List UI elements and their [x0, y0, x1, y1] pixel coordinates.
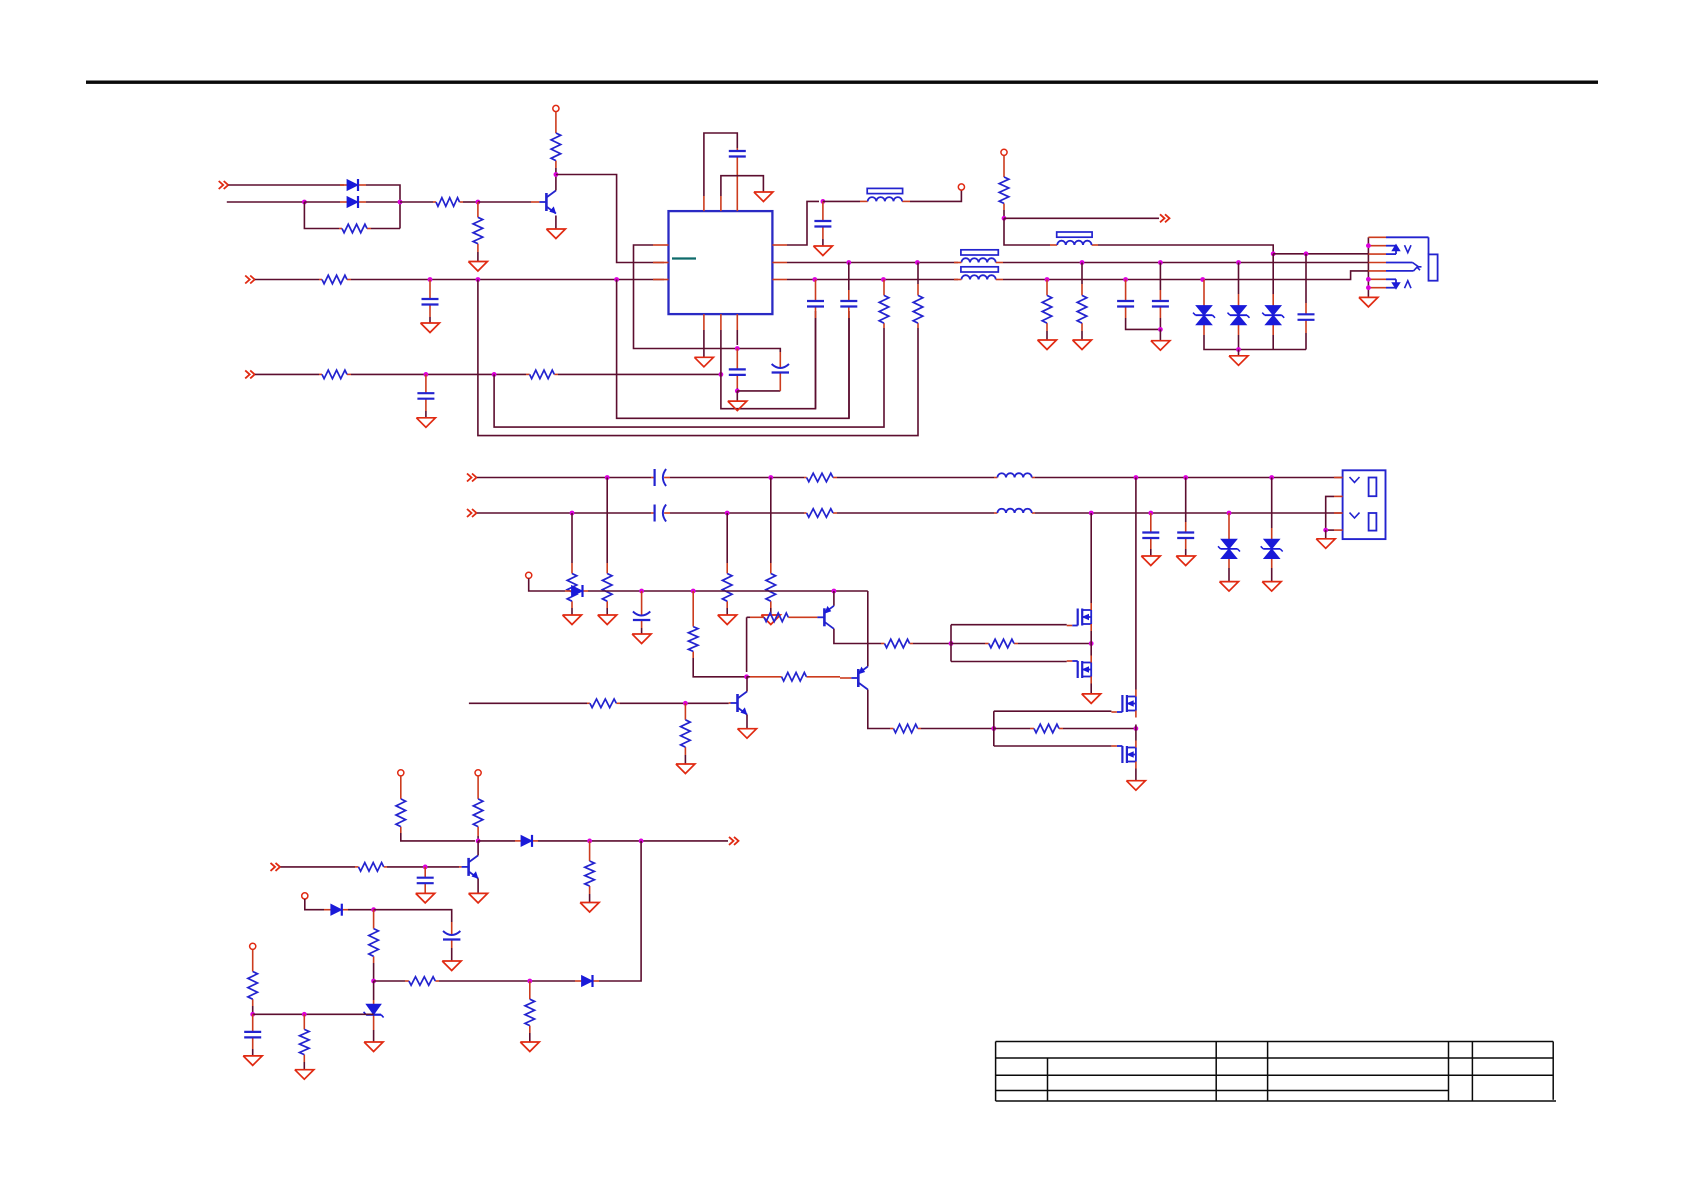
wire — [606, 608, 608, 615]
terminal — [526, 572, 532, 578]
wire — [951, 643, 985, 645]
MOSFET M1 — [1067, 603, 1092, 631]
junction — [832, 589, 837, 594]
wire — [387, 866, 459, 868]
wire — [555, 168, 557, 175]
ground — [580, 903, 599, 913]
wire — [837, 512, 994, 514]
wire — [787, 262, 958, 264]
inductor L2 — [994, 509, 1035, 513]
wire — [463, 201, 478, 203]
ground — [1229, 356, 1248, 366]
wire — [704, 133, 737, 196]
MOSFET M4 — [1111, 741, 1136, 769]
wire — [994, 728, 1030, 730]
junction — [428, 277, 433, 282]
wire — [366, 185, 400, 229]
off-page connector row3 — [245, 276, 255, 284]
wire — [1185, 478, 1187, 523]
junction — [1269, 475, 1274, 480]
resistor R21 — [881, 639, 913, 648]
wire — [373, 981, 375, 1000]
junction — [1080, 260, 1085, 265]
capacitor C9 — [1117, 280, 1134, 319]
junction — [398, 200, 403, 205]
terminal — [250, 943, 256, 949]
ground — [563, 615, 582, 625]
wire — [770, 608, 772, 615]
ground — [1126, 781, 1145, 791]
inductor L1 — [994, 473, 1035, 477]
resistor R22 — [985, 639, 1018, 648]
wire — [747, 616, 750, 618]
junction — [570, 511, 575, 516]
resistor R9 — [879, 280, 889, 329]
wire — [1325, 530, 1327, 539]
resistor R28 — [396, 776, 406, 833]
wire — [921, 728, 994, 730]
wire — [374, 980, 405, 982]
wire — [425, 411, 427, 418]
ground — [1359, 297, 1378, 307]
resistor R32 — [369, 910, 379, 963]
wire — [494, 328, 884, 427]
ferrite bead FB1 — [860, 188, 910, 201]
wire — [429, 317, 431, 323]
wire — [1135, 478, 1137, 690]
resistor R34 — [525, 981, 535, 1033]
junction — [1366, 285, 1371, 290]
ground — [520, 1042, 539, 1052]
junction — [639, 589, 644, 594]
top border rule — [86, 81, 1598, 84]
junction — [949, 641, 954, 646]
wire — [478, 840, 515, 842]
wire — [477, 512, 651, 514]
wire — [746, 715, 748, 729]
resistor R4 (pull-up) — [551, 112, 561, 168]
junction — [1158, 260, 1163, 265]
junction — [639, 839, 644, 844]
wire — [1159, 318, 1161, 329]
junction — [1123, 277, 1128, 282]
capacitor C10 — [1152, 290, 1169, 318]
junction — [1304, 251, 1309, 256]
wire — [571, 513, 573, 563]
junction — [725, 511, 730, 516]
wire — [617, 280, 849, 419]
capacitor C19 — [1177, 522, 1194, 549]
resistor R18 — [804, 509, 837, 518]
wire — [1003, 271, 1368, 280]
junction — [821, 199, 826, 204]
wire — [1018, 643, 1091, 645]
wire — [994, 710, 1112, 712]
ground — [1151, 341, 1170, 351]
wire — [833, 591, 835, 606]
wire — [588, 590, 868, 592]
ground — [1141, 556, 1160, 566]
resistor R26 — [587, 699, 620, 708]
wire — [478, 280, 918, 436]
wire — [1126, 318, 1161, 329]
junction — [476, 277, 481, 282]
diode D3 — [565, 585, 588, 597]
TVS diode TVS2 — [1228, 294, 1250, 335]
wire — [469, 702, 587, 704]
wire — [670, 477, 804, 479]
junction — [302, 1012, 307, 1017]
wire — [1081, 263, 1083, 285]
transistor Q2 (NPN) — [459, 855, 478, 878]
wire — [1090, 684, 1092, 694]
junction — [719, 372, 724, 377]
ground — [761, 615, 780, 625]
resistor R29 — [473, 776, 483, 836]
wire — [736, 388, 738, 391]
junction — [812, 277, 817, 282]
junction — [683, 701, 688, 706]
ground — [813, 246, 832, 256]
connector J2 (RCA jacks) — [1334, 470, 1386, 539]
zener diode ZD1 — [364, 1000, 384, 1030]
wire — [374, 910, 452, 922]
wire — [252, 1049, 254, 1056]
wire — [400, 201, 433, 203]
junction — [846, 260, 851, 265]
wire — [834, 629, 881, 644]
TVS diode TVS3 — [1262, 294, 1284, 335]
wire — [439, 980, 575, 982]
wire — [634, 245, 737, 349]
junction — [1002, 216, 1007, 221]
capacitor C12 (polarized) — [633, 591, 650, 628]
wire — [917, 263, 919, 285]
terminal — [958, 184, 964, 190]
junction — [735, 346, 740, 351]
capacitor C17 (coupling) — [651, 505, 670, 522]
resistor R15 — [804, 473, 837, 482]
wire — [451, 948, 453, 961]
wire — [746, 677, 748, 692]
wire — [837, 477, 994, 479]
wire — [1098, 245, 1273, 254]
resistor R24 — [890, 724, 921, 733]
resistor R17 — [722, 563, 732, 608]
ground — [728, 401, 747, 411]
ground — [243, 1056, 262, 1066]
wire — [1003, 210, 1005, 218]
ground — [1316, 539, 1335, 549]
capacitor C18 — [1142, 513, 1159, 549]
junction — [1366, 277, 1371, 282]
wire — [477, 477, 651, 479]
ground — [738, 729, 757, 739]
wire — [910, 190, 961, 201]
junction — [1148, 511, 1153, 516]
wire — [950, 625, 952, 662]
junction — [302, 200, 307, 205]
wire — [401, 833, 475, 841]
junction — [915, 260, 920, 265]
ground — [416, 893, 435, 903]
resistor R36 — [300, 1014, 310, 1062]
junction — [614, 277, 619, 282]
wire — [1090, 513, 1092, 603]
wire — [371, 228, 400, 230]
ground — [754, 192, 773, 202]
IC U1 — [653, 196, 787, 330]
wire — [303, 1062, 305, 1070]
resistor R11 — [1042, 280, 1052, 332]
junction — [492, 372, 497, 377]
wire — [848, 318, 850, 418]
terminal — [398, 770, 404, 776]
title block table — [996, 1042, 1556, 1102]
junction — [691, 589, 696, 594]
wire — [1004, 218, 1050, 245]
transistor Q4 (PNP) — [840, 667, 868, 690]
junction — [1158, 327, 1163, 332]
MOSFET M2 — [1067, 656, 1092, 684]
ground — [546, 216, 565, 239]
junction — [527, 979, 532, 984]
wire — [477, 878, 479, 893]
resistor R3 (base shunt) — [473, 202, 483, 252]
wire — [351, 373, 526, 375]
wire — [1228, 568, 1230, 582]
resistor R13 — [602, 563, 612, 608]
capacitor C3 — [417, 374, 434, 411]
resistor R33 — [405, 977, 439, 986]
capacitor C13 — [417, 867, 434, 894]
diode D1 — [340, 179, 366, 191]
wire — [1035, 477, 1343, 479]
wire — [1081, 331, 1083, 340]
wire — [1272, 335, 1274, 350]
wire — [736, 349, 780, 353]
wire — [477, 836, 479, 841]
junction — [250, 1012, 255, 1017]
wire — [348, 909, 374, 911]
capacitor C2 — [422, 280, 439, 318]
off-page connector row6 — [467, 509, 477, 517]
ground — [416, 418, 435, 428]
wire — [1305, 254, 1307, 303]
wire — [746, 617, 748, 672]
ground — [1176, 556, 1195, 566]
wire — [1271, 568, 1273, 582]
wire — [787, 201, 819, 245]
resistor R10 — [999, 155, 1009, 210]
resistor R1 (loop) — [339, 224, 371, 233]
junction — [371, 979, 376, 984]
capacitor C8 — [807, 280, 824, 319]
ground — [598, 615, 617, 625]
ground — [718, 615, 737, 625]
ground — [1038, 340, 1057, 350]
wire — [1090, 631, 1092, 656]
junction — [476, 200, 481, 205]
wire — [693, 658, 746, 677]
wire — [589, 894, 591, 903]
wire — [994, 745, 1112, 747]
TVS diode TVS5 — [1261, 528, 1283, 568]
wire — [1135, 725, 1137, 741]
wire — [787, 279, 958, 281]
ground — [1220, 582, 1239, 592]
wire — [1185, 549, 1187, 556]
ground — [676, 764, 695, 774]
junction — [1323, 528, 1328, 533]
off-page connector (right) — [1160, 214, 1170, 222]
wire — [1204, 335, 1306, 350]
wire — [304, 202, 339, 229]
wire — [684, 755, 686, 764]
ground — [694, 357, 713, 367]
wire — [255, 279, 319, 281]
capacitor C5 (polarized) — [772, 352, 789, 391]
ground — [1082, 694, 1101, 704]
wire — [641, 628, 643, 634]
junction — [1045, 277, 1050, 282]
junction — [605, 475, 610, 480]
wire — [1272, 254, 1274, 294]
transistor Q3 (PNP) — [810, 606, 834, 629]
junction — [1134, 475, 1139, 480]
wire — [1273, 253, 1368, 255]
wire — [848, 263, 850, 291]
wire — [305, 899, 324, 910]
ferrite bead FB2 — [1050, 232, 1098, 245]
junction — [768, 475, 773, 480]
wire — [252, 1006, 254, 1014]
wire — [737, 390, 780, 392]
wire — [1003, 262, 1368, 264]
wire — [1238, 335, 1240, 350]
wire — [529, 1033, 531, 1042]
ground — [1073, 340, 1092, 350]
TVS diode TVS4 — [1218, 513, 1240, 568]
junction — [735, 389, 740, 394]
junction — [424, 372, 429, 377]
diode D5 — [324, 904, 348, 916]
wire — [951, 624, 1067, 626]
wire — [1238, 263, 1240, 295]
wire — [477, 252, 479, 262]
wire — [868, 690, 890, 729]
wire — [1063, 728, 1136, 730]
wire — [529, 578, 565, 591]
wire — [721, 311, 816, 409]
wire — [1238, 350, 1240, 356]
resistor R12 — [1077, 284, 1087, 331]
ground — [469, 893, 488, 903]
wire — [255, 373, 319, 375]
resistor R19 — [688, 591, 698, 658]
wire — [736, 330, 738, 345]
resistor R6 — [319, 370, 351, 379]
wire — [227, 201, 305, 203]
wire — [1159, 329, 1161, 340]
diode D4 — [515, 835, 538, 847]
wire — [304, 201, 340, 203]
wire — [703, 330, 705, 357]
wire — [736, 391, 738, 401]
wire — [366, 201, 400, 203]
transistor Q5 (NPN) — [531, 191, 556, 214]
connector J1 (headphone jack) — [1386, 237, 1438, 289]
ground — [632, 634, 651, 644]
wire — [281, 866, 356, 868]
wire — [599, 841, 641, 981]
resistor R35 — [248, 949, 258, 1006]
ground — [421, 323, 440, 333]
wire — [823, 200, 860, 202]
wire — [478, 201, 531, 203]
terminal — [302, 893, 308, 899]
wire — [538, 840, 728, 842]
ground — [295, 1070, 314, 1080]
transistor Q1 (NPN) — [729, 692, 747, 715]
wire — [253, 1013, 374, 1015]
wire — [746, 676, 748, 678]
MOSFET M3 — [1111, 690, 1136, 718]
wire — [815, 318, 817, 409]
terminal — [475, 770, 481, 776]
wire — [1326, 529, 1334, 531]
capacitor C1 — [729, 148, 746, 196]
resistor R5 — [319, 275, 351, 284]
common-mode choke CH1 — [954, 250, 1003, 280]
junction — [423, 865, 428, 870]
off-page connector row1 — [219, 181, 229, 189]
wire — [556, 175, 664, 263]
wire — [1046, 331, 1048, 340]
wire — [606, 478, 608, 564]
ground — [442, 961, 461, 971]
wire — [770, 478, 772, 564]
resistor R31 — [355, 863, 387, 872]
diode D2 — [340, 196, 366, 208]
junction — [1089, 511, 1094, 516]
wire — [913, 643, 951, 645]
wire — [555, 175, 557, 191]
wire — [951, 661, 1067, 663]
off-page connector row4 — [245, 370, 255, 378]
junction — [554, 172, 559, 177]
resistor R25 — [1030, 724, 1063, 733]
junction — [1366, 243, 1371, 248]
wire — [747, 676, 750, 678]
capacitor C15 — [244, 1014, 261, 1049]
junction — [881, 277, 886, 282]
terminal — [1001, 149, 1007, 155]
capacitor C4 — [729, 349, 746, 389]
ground — [364, 1042, 383, 1052]
wire — [1159, 263, 1161, 291]
junction — [1227, 511, 1232, 516]
capacitor C7 — [840, 290, 857, 318]
resistor R8 — [913, 284, 923, 328]
wire — [1004, 217, 1159, 219]
junction — [1271, 251, 1276, 256]
off-page connector row5 — [467, 474, 477, 482]
resistor R16 — [567, 563, 577, 608]
resistor R30 — [585, 841, 595, 894]
junction — [1236, 260, 1241, 265]
junction — [371, 907, 376, 912]
